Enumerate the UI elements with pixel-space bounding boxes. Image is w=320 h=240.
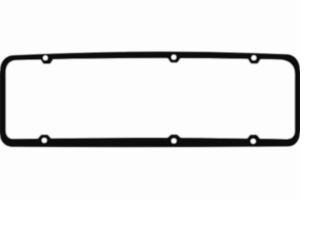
bottom bolt hole 3 [251, 139, 256, 144]
bottom bolt tab 3 [246, 135, 261, 140]
bottom bolt hole 2 [171, 138, 176, 143]
top bolt hole 2 [171, 55, 176, 60]
bottom bolt tab 1 [37, 135, 52, 140]
gasket photo: black valve cover gasket on white background [0, 0, 300, 200]
top bolt hole 1 [43, 56, 48, 61]
gasket outer body [0, 52, 301, 147]
top bolt tab 3 [247, 57, 263, 64]
bottom bolt tab 2 [166, 134, 181, 138]
top bolt hole 3 [251, 55, 256, 60]
top bolt tab 2 [166, 56, 182, 63]
bottom bolt hole 1 [42, 138, 47, 143]
gasket inner opening [6, 58, 295, 139]
top bolt tab 1 [39, 57, 55, 64]
